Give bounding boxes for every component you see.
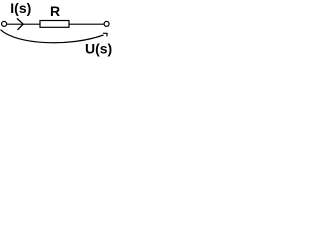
terminal right (open circle) xyxy=(104,21,109,26)
terminal left (open circle) xyxy=(2,21,7,26)
circuit: series resistor two-port with current and voltage arrows xyxy=(0,0,126,65)
voltage arrowhead xyxy=(103,33,107,36)
wire right xyxy=(70,23,105,25)
svg-text:R: R xyxy=(50,3,60,19)
current arrow chevron xyxy=(17,18,23,30)
svg-text:U(s): U(s) xyxy=(85,40,112,56)
resistor R (box) xyxy=(40,21,69,28)
voltage arc U(s) xyxy=(1,30,104,43)
wire left xyxy=(6,23,40,25)
svg-text:I(s): I(s) xyxy=(10,0,31,16)
